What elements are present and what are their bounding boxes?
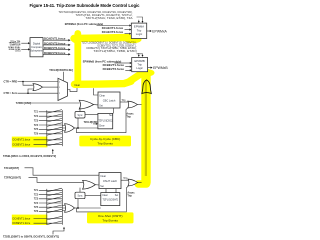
highlighted caption: One-Shot (OSHT) Trip Events [87,212,134,223]
svg-text:DCAEVT2.force: DCAEVT2.force [102,30,124,34]
svg-text:Clear: Clear [99,94,105,97]
labels: OSHT trip-zone inputs TZ1-TZ6 [34,190,39,213]
svg-text:Trip: Trip [126,115,131,118]
svg-text:Sync: Sync [77,196,83,198]
wire: rail stubs into OSHT big OR [62,205,65,210]
wires: OSHT input rows into switch ladder [34,190,63,223]
wire: latch to TZFLG[OSHT] connectors [106,189,116,193]
svg-text:TZ5: TZ5 [34,207,39,209]
wire: OR junction up into sync [78,107,80,128]
wire: sync output to async OR input [85,114,98,116]
svg-text:Cycle-by-Cycle (CBC): Cycle-by-Cycle (CBC) [90,137,120,141]
svg-text:Sync: Sync [77,115,83,117]
block: Digital Compare Subsystem [30,38,43,57]
gate: OSHT big OR (trip event OR) [65,204,75,213]
svg-text:DCAEVT1.force: DCAEVT1.force [13,217,31,220]
svg-text:2: 2 [59,93,60,95]
svg-text:EPWMxA: EPWMxA [152,29,167,33]
wire: CTR=Zero to mux input 2 [18,92,58,94]
svg-text:Subsystem: Subsystem [30,49,43,53]
svg-text:TZFLG[CBC]: TZFLG[CBC] [98,119,112,122]
wire: input group 2 into digital compare [21,48,30,50]
highlighted caption: Cycle-by-Cycle (CBC) Trip Events [79,136,131,147]
svg-text:Set: Set [100,185,104,188]
svg-text:TZCTL2[TZAU, TZAD, ETZD], TZA: TZCTL2[TZAU, TZAD, ETZD], TZA [86,16,133,20]
svg-text:DCBEVT1.force: DCBEVT1.force [13,222,31,225]
gate: OR (CTR=PRD + CTR=Zero) [33,84,43,91]
svg-text:TZ5: TZ5 [34,129,39,131]
label+wire: DCBEVT2.force output [43,51,71,56]
svg-text:Clear: Clear [99,125,105,128]
wire: input group 1 into digital compare [21,42,30,44]
wire: DCBEVT1.force into trip logic [125,66,131,68]
highlighted trip path (yellow marker) left vertical band [74,34,81,84]
svg-text:TZCLR[OST]: TZCLR[OST] [4,167,19,170]
label+wire: DCBEVT1.force output [43,46,71,51]
switch ladder rails (OSHT) [47,189,63,225]
svg-text:Logic: Logic [136,66,143,70]
wire: mux output to CBC latch clear [68,88,99,95]
block U-B: EPWMB Trip Logic [132,58,148,72]
label: digital compare input group 1 [9,40,22,47]
wire: TZSEL control into ladder (OSHT) [53,227,65,235]
highlighted trip path (yellow marker) right vertical band [141,69,155,182]
svg-text:Compare: Compare [31,45,42,49]
svg-text:TZ6: TZ6 [34,211,39,213]
svg-text:Set: Set [115,194,119,197]
block: OSHT sync [75,192,85,199]
svg-text:Digital: Digital [33,41,41,45]
switch blades (OSHT TZSEL) [47,188,62,224]
TZCTL config text block for EPWMB [82,40,137,53]
wire: OSHT OR junction up into sync [78,188,80,208]
node: CTR=PRD branch junction [22,81,24,83]
wire: force OR output to CBC latch Set [94,104,98,106]
svg-text:TZCTL2[TZBU, TZBD, ETZD]: TZCTL2[TZBU, TZBD, ETZD] [94,49,137,53]
wire: force OR output to OSHT latch Set [95,184,99,186]
wire: OSHT async bypass loop [77,186,129,212]
switch blades (CBC TZSEL) [47,110,62,146]
labels: CBC trip-zone inputs TZ1-TZ6 [34,112,39,136]
wire: TZSEL control into ladder [52,149,54,154]
svg-text:TZ2: TZ2 [34,194,39,196]
wire: TZCLR[CBC] arrow into TZFLG clear [93,123,98,125]
wire: TZFRC[CBC] to force OR gate [30,102,80,104]
label+wire: DCAEVT1.force output [43,37,71,42]
svg-text:Clear: Clear [100,175,106,178]
svg-text:One-Shot (OSHT): One-Shot (OSHT) [98,214,123,218]
svg-text:CBC Latch: CBC Latch [103,98,116,102]
wire: DCAEVT2.force into trip logic [125,33,132,35]
svg-text:Trip: Trip [137,28,142,32]
TZCTL config text block for EPWMA [59,10,133,20]
svg-text:TZ2: TZ2 [34,116,39,118]
wire: DCBEVT2.force into trip logic [125,69,131,71]
wire: DCAEVT1.force into trip logic [125,29,132,31]
svg-text:CTR = Zero: CTR = Zero [4,91,18,95]
wire: junction right (OSHT) [78,207,101,209]
block: OSHT latch [99,173,121,189]
label: digital compare input group 2 [8,46,21,53]
svg-text:TZFRC[OSHT]: TZFRC[OSHT] [4,176,21,179]
highlighted trip path (yellow marker) rise toward EPWMB trip logic [130,74,141,81]
svg-text:TZSEL[OSHT1 to OSHT6, DCAEVT1,: TZSEL[OSHT1 to OSHT6, DCAEVT1, DCBEVT1] [3,236,59,239]
wire: EPWMxB into trip logic [115,62,132,64]
svg-text:TZ4: TZ4 [34,202,39,205]
svg-text:DCBEVT2.force: DCBEVT2.force [13,143,31,146]
svg-text:Trip: Trip [127,194,132,197]
label+wire: DCAEVT2.force output [43,41,71,46]
arrow glyph: highlighted up arrow into EPWMB trip logic [142,80,151,94]
wire: mux select from TZCLR[CBCPULSE] [62,72,64,81]
svg-text:TZ3: TZ3 [34,199,39,201]
block: TZFLG[CBC] flag [98,113,113,128]
svg-text:TZFLG[OSHT]: TZFLG[OSHT] [103,199,119,202]
svg-text:TZ3: TZ3 [34,120,39,122]
wire: CTR=PRD to mux input 0 [18,81,58,83]
svg-text:OSHT Latch: OSHT Latch [103,179,118,183]
wire: EPWMxA into trip logic [97,24,132,26]
wire: TZCLR[OST] to OSHT latch clear [25,168,100,175]
label: Async Trip (OSHT) [127,191,135,197]
wire: trip to TZFLG set [113,108,115,113]
wire: OSHT trip OR output into highlighted band [138,182,142,184]
svg-text:TZSEL[CBC1 to CBC6, DCAEVT2, D: TZSEL[CBC1 to CBC6, DCAEVT2, DCBEVT2] [3,155,56,158]
svg-text:Figure 15-41. Trip-Zone Submod: Figure 15-41. Trip-Zone Submodule Mode C… [30,3,140,8]
node: CTR=Zero branch junction [27,92,29,94]
gate: CBC trip OR [128,101,138,108]
highlighted trip path (yellow marker) upper stroke to EPWMA trip logic [71,36,141,44]
svg-text:TZ1: TZ1 [34,112,39,114]
mux: CBC clear pulse select [58,78,68,100]
wire: EPWMxA output [147,30,152,32]
wire: big OR output to junction (OSHT) [75,207,79,209]
svg-text:Trip Events: Trip Events [102,219,118,223]
svg-text:Trip: Trip [123,177,128,180]
wire: OSHT latch output to trip OR [121,179,128,181]
svg-text:EPWMB: EPWMB [135,59,145,63]
wire: junction to TZFLG region [78,127,98,129]
svg-text:TZCLR[CBCPULSE]: TZCLR[CBCPULSE] [49,69,73,72]
wire: EPWMxB output [148,67,153,69]
svg-text:Set: Set [99,104,103,107]
svg-text:TZFRC[CBC]: TZFRC[CBC] [16,102,31,105]
svg-text:Trip Events: Trip Events [97,142,113,146]
block U-A: EPWMA Trip Logic [131,23,146,38]
svg-text:1: 1 [59,87,60,89]
wire: branch up to OR gate [28,89,33,93]
wire: config lines into EPWMA trip logic box top [137,17,144,23]
wire: sync output to async OR input (OSHT) [85,194,101,196]
wire: big OR output to junction [75,127,79,129]
wire: branch down to OR gate [23,82,33,86]
svg-text:Set: Set [109,114,113,117]
svg-text:Trip: Trip [137,62,142,66]
highlighted labels: DCAEVT2.force / DCBEVT2.force (yellow) [12,137,48,148]
svg-text:Trip: Trip [121,99,126,102]
wires: CBC input rows into switch ladder [34,112,63,145]
svg-text:CTR = PRD: CTR = PRD [4,80,18,84]
wire: CBC async bypass loop [76,108,128,133]
highlighted trip path (yellow marker) lower horizontal stroke (CBC clear row) [75,81,132,84]
node: OSHT OR output junction [77,207,79,209]
highlighted labels: DCAEVT1.force / DCBEVT1.force (yellow) [12,215,48,225]
svg-text:TZ4: TZ4 [34,124,39,127]
node: CBC OR output junction [77,127,79,129]
block: CBC latch [98,92,120,108]
svg-text:Clear: Clear [74,84,80,87]
gate: OSHT trip OR [128,179,138,186]
wire: config lines into EPWMB trip logic box top [137,53,144,57]
svg-text:DCBEVT2.force: DCBEVT2.force [103,67,125,71]
gate: CBC force OR [79,100,93,109]
svg-text:0: 0 [59,82,60,84]
svg-text:DCAEVT2.force: DCAEVT2.force [13,139,31,142]
svg-text:Logic: Logic [136,32,143,36]
svg-text:Clear: Clear [102,194,108,197]
wire: CBC trip OR output into highlighted band [137,104,141,106]
switch ladder rails (CBC) [47,110,63,146]
highlighted trip path (yellow marker) bottom stub from OSHT trip gate [138,180,146,187]
gate: CBC big OR (trip event OR) [65,124,75,133]
svg-text:TZ6: TZ6 [34,134,39,136]
gate: OSHT force OR [83,180,96,189]
block: TZFLG[OSHT] flag [101,193,120,206]
block: CBC sync [75,112,85,119]
svg-text:select: select [15,50,21,53]
label: Async Trip (CBC) [126,112,134,118]
svg-text:EPWMxB: EPWMxB [153,66,168,70]
wire: OR output to mux input 1 [43,86,59,88]
svg-text:EPWMA: EPWMA [134,25,144,29]
svg-text:TZ1: TZ1 [34,190,39,192]
wire: CBC latch output to trip OR [120,101,128,103]
wire: TZFRC[OSHT] to OSHT force OR [29,177,84,182]
wire: rail stubs into CBC big OR [62,125,65,130]
